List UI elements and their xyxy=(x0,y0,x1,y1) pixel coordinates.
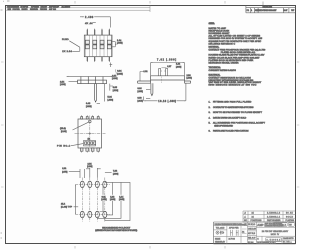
svg-text:(VIEWED FROM COMPONENT SIDE OF: (VIEWED FROM COMPONENT SIDE OF BOARD) xyxy=(95,229,137,232)
svg-text:1.91: 1.91 xyxy=(62,168,67,170)
doc no boxes xyxy=(273,223,287,227)
svg-text:1.14: 1.14 xyxy=(119,196,124,198)
svg-text:0.38: 0.38 xyxy=(138,98,143,100)
svg-text:2.54: 2.54 xyxy=(187,75,192,77)
bottom dim arrows xyxy=(144,100,186,101)
svg-text:[.032]: [.032] xyxy=(101,199,107,201)
svg-text:[.018]: [.018] xyxy=(86,106,92,108)
svg-text:[.120]: [.120] xyxy=(113,90,119,92)
svg-text:25.4: 25.4 xyxy=(61,204,66,206)
svg-text:SHEET 1 OF 2: SHEET 1 OF 2 xyxy=(264,243,276,245)
svg-text:[.040]: [.040] xyxy=(176,66,182,68)
bottom view square body xyxy=(78,119,102,148)
svg-text:7.62 [.300]: 7.62 [.300] xyxy=(157,59,176,61)
svg-text:PER DWG: PER DWG xyxy=(40,9,48,11)
svg-text:CHK D.W: CHK D.W xyxy=(248,229,256,231)
svg-text:9-97: 9-97 xyxy=(284,10,288,12)
top pin lead stubs xyxy=(82,115,99,116)
callout routing wires xyxy=(105,182,130,220)
svg-text:C-520314: C-520314 xyxy=(275,225,287,227)
third angle projection symbol xyxy=(216,231,224,234)
revisions table top-right xyxy=(246,2,296,13)
end view left wing xyxy=(138,80,151,83)
svg-text:2X 2.54: 2X 2.54 xyxy=(62,51,72,53)
svg-text:FITTINGS AND PADS FULL PLATED: FITTINGS AND PADS FULL PLATED xyxy=(213,100,252,103)
svg-text:6.: 6. xyxy=(209,131,211,133)
svg-text:REL 9-97: REL 9-97 xyxy=(248,237,256,239)
svg-text:SIZE OF STANDARD: SIZE OF STANDARD xyxy=(214,124,233,127)
svg-text:[1.00]: [1.00] xyxy=(61,131,67,133)
small circle feature xyxy=(89,120,92,123)
svg-text:[.015]: [.015] xyxy=(138,101,144,103)
end view pin xyxy=(151,83,153,95)
svg-text:1.02: 1.02 xyxy=(176,64,181,66)
bottom row pads xyxy=(80,211,107,218)
svg-text:P1 NO: P1 NO xyxy=(62,39,69,41)
svg-text:MOD IV: MOD IV xyxy=(271,234,280,236)
svg-text:1.: 1. xyxy=(209,101,211,103)
contact squares row 2 xyxy=(85,45,111,49)
leader to cluster xyxy=(71,144,84,146)
svg-text:DR K.LO: DR K.LO xyxy=(248,224,256,226)
svg-text:[.075]: [.075] xyxy=(62,171,68,173)
svg-text:2.: 2. xyxy=(209,107,211,109)
latch features xyxy=(159,69,168,76)
svg-text:HEADER AY: HEADER AY xyxy=(215,241,226,244)
svg-text:5000 MEGOHM MINIMUM AT 500 VDC: 5000 MEGOHM MINIMUM AT 500 VDC xyxy=(209,83,257,86)
svg-text:TOL ±0.13: TOL ±0.13 xyxy=(216,228,225,230)
right step dimension bracket xyxy=(112,42,116,47)
svg-text:ALL NUMBERED PIN POSITIONS SHA: ALL NUMBERED PIN POSITIONS SHALL ACCEPT xyxy=(213,122,266,125)
svg-text:RECOMMENDED PC LAYOUT: RECOMMENDED PC LAYOUT xyxy=(102,226,131,229)
top view pin column lines xyxy=(85,35,111,57)
bottom pin lead stubs xyxy=(82,151,99,152)
svg-text:3.05: 3.05 xyxy=(113,87,118,89)
svg-text:APVD PER: APVD PER xyxy=(229,227,239,230)
side view pin ticks in bar xyxy=(81,77,103,84)
center mark xyxy=(89,132,91,134)
svg-text:[.025]: [.025] xyxy=(117,74,123,76)
svg-text:108-25016 REVISION C: 108-25016 REVISION C xyxy=(209,43,236,45)
tolerance sub columns xyxy=(227,222,248,244)
svg-text:SC 4:1: SC 4:1 xyxy=(248,242,254,244)
svg-text:AMP 102: AMP 102 xyxy=(49,8,56,11)
svg-text:2.489: 2.489 xyxy=(85,17,94,19)
svg-text:AMP: AMP xyxy=(257,223,263,227)
top view body outline xyxy=(84,35,112,57)
svg-text:PIN NO.1: PIN NO.1 xyxy=(57,146,71,148)
svg-text:RIGHTS: RIGHTS xyxy=(22,9,29,11)
svg-text:DATUM DWGS ON ACCEPT SOLD: DATUM DWGS ON ACCEPT SOLD xyxy=(213,116,247,119)
svg-text:CAGE 00779: CAGE 00779 xyxy=(283,237,294,240)
end view body top plate xyxy=(151,76,185,80)
svg-text:HOUSING GLASS FILLED PBT THERM: HOUSING GLASS FILLED PBT THERMOPLASTIC U… xyxy=(209,54,265,57)
svg-text:0.81: 0.81 xyxy=(102,196,107,198)
svg-text:RESERVED: RESERVED xyxy=(30,9,39,11)
svg-text:[.045]: [.045] xyxy=(117,43,123,45)
svg-text:1: 1 xyxy=(291,242,292,244)
svg-text:7.62: 7.62 xyxy=(113,171,118,173)
top pins pointing up xyxy=(87,28,110,35)
svg-text:CURRENT RATING 3 AMPS: CURRENT RATING 3 AMPS xyxy=(209,69,237,72)
svg-text:4:1: 4:1 xyxy=(242,231,244,233)
svg-text:[.025]: [.025] xyxy=(138,91,144,93)
bottom cluster squares xyxy=(85,142,96,145)
svg-text:[.100]: [.100] xyxy=(112,78,118,80)
pc right top leader xyxy=(105,171,112,173)
gauge symbol right xyxy=(231,230,239,236)
svg-text:PARTS ARE TOOLED PER CUSTOM: PARTS ARE TOOLED PER CUSTOM xyxy=(213,130,249,133)
svg-text:5.84: 5.84 xyxy=(108,97,113,99)
svg-text:5.: 5. xyxy=(209,123,211,125)
svg-text:NAME: NAME xyxy=(215,238,221,241)
side view left leader xyxy=(69,81,78,83)
svg-text:GOLD: GOLD xyxy=(286,216,294,218)
svg-text:ALL RIGHTS: ALL RIGHTS xyxy=(62,5,71,8)
pc top-left dim leader xyxy=(69,169,85,178)
svg-text:FOR PUBL: FOR PUBL xyxy=(13,9,21,11)
svg-text:(25.4): (25.4) xyxy=(60,128,66,130)
svg-text:[.230]: [.230] xyxy=(108,99,114,101)
svg-text:APV R.S: APV R.S xyxy=(248,232,256,235)
svg-text:PLATED GOLD OVER NICKEL ALL: PLATED GOLD OVER NICKEL ALL xyxy=(221,51,256,54)
svg-text:[.100]: [.100] xyxy=(187,78,193,80)
drafting name rows xyxy=(248,222,257,244)
svg-text:C: C xyxy=(257,239,259,241)
bottom view centerlines xyxy=(75,116,106,153)
svg-text:CONTACTS TO MATE BEFORE APPLYI: CONTACTS TO MATE BEFORE APPLYING xyxy=(213,106,254,109)
side view right long dim xyxy=(103,84,105,102)
svg-text:0.64: 0.64 xyxy=(138,88,143,90)
svg-text:0.64: 0.64 xyxy=(117,71,122,73)
faint alignment marks above frame xyxy=(7,0,10,2)
svg-text:1.02: 1.02 xyxy=(110,196,115,198)
svg-text:1.27: 1.27 xyxy=(167,66,172,68)
bottom cluster box xyxy=(84,141,96,146)
svg-text:[.045]: [.045] xyxy=(119,199,125,201)
end view bottom dim xyxy=(144,83,186,101)
svg-text:DESIGNED FOR MOD IV SYSTEM TO: DESIGNED FOR MOD IV SYSTEM TO ACCEPT .02… xyxy=(209,37,263,40)
svg-text:1: 1 xyxy=(251,10,253,12)
top row pads xyxy=(80,181,107,188)
svg-text:2-520314: 2-520314 xyxy=(267,240,281,242)
pin1 leader xyxy=(69,41,80,47)
svg-text:P1: P1 xyxy=(247,10,250,12)
svg-text:4X .64: 4X .64 xyxy=(85,23,93,25)
svg-text:3.: 3. xyxy=(209,112,211,114)
row pitch dim arrows xyxy=(74,184,77,214)
svg-text:[.100]: [.100] xyxy=(60,84,66,86)
end view right wing xyxy=(185,80,191,83)
contact squares row 1 xyxy=(85,40,111,44)
svg-text:PART NUMBER: PART NUMBER xyxy=(267,219,281,222)
bottom row cells xyxy=(257,236,283,244)
svg-text:01 DR: 01 DR xyxy=(283,242,290,244)
title block outer lines xyxy=(214,222,296,244)
svg-text:1.91: 1.91 xyxy=(144,71,149,73)
svg-text:4.: 4. xyxy=(209,117,211,119)
side view dim arrows xyxy=(67,76,113,77)
lower-right pin dim callout xyxy=(110,63,113,68)
svg-text:24 PIN DIP HEADER ASSY: 24 PIN DIP HEADER ASSY xyxy=(262,230,289,233)
svg-text:RELE: RELE xyxy=(8,9,12,11)
pad column centerlines xyxy=(76,178,111,222)
svg-text:[1.00] TYP: [1.00] TYP xyxy=(61,207,73,209)
svg-text:[.100]: [.100] xyxy=(87,166,93,168)
svg-text:1.14: 1.14 xyxy=(117,40,122,42)
svg-text:2-520314-2: 2-520314-2 xyxy=(267,213,281,215)
leader to circle xyxy=(73,122,89,130)
bottom view top pins xyxy=(81,117,100,119)
svg-text:HOW TO BE PROCESSED TO FLOWS E: HOW TO BE PROCESSED TO FLOWS EXCEPT xyxy=(213,112,263,114)
svg-text:PLATING: PLATING xyxy=(286,219,295,222)
svg-text:REVISED PER EC 0990-0497: REVISED PER EC 0990-0497 xyxy=(255,10,277,12)
bottom pins pointing down xyxy=(87,57,110,63)
svg-text:SQUARE POST PIN CONTACTS ONLY: SQUARE POST PIN CONTACTS ONLY PER SPEC xyxy=(209,40,262,43)
svg-text:2-520314-1: 2-520314-1 xyxy=(267,216,281,218)
svg-text:MATES TO AMP: MATES TO AMP xyxy=(209,27,227,30)
svg-text:0.46: 0.46 xyxy=(86,103,91,105)
svg-text:RECEPTACLE CONN: RECEPTACLE CONN xyxy=(209,29,230,32)
side view top dim line xyxy=(67,75,113,77)
side view right small dim xyxy=(110,84,113,91)
copyright legal block top-left xyxy=(6,5,151,12)
svg-text:[.300]: [.300] xyxy=(113,174,119,176)
svg-text:24 POS: 24 POS xyxy=(229,239,236,241)
top view dim line xyxy=(80,17,110,28)
svg-text:10.16 [.400]: 10.16 [.400] xyxy=(158,101,176,103)
side view long pin xyxy=(95,84,97,102)
side view body bar xyxy=(78,80,107,84)
end view top dim line xyxy=(151,63,185,76)
svg-text:MICROINCH NICKEL UNDER: MICROINCH NICKEL UNDER xyxy=(209,62,239,64)
svg-text:ALL STYLES LISTED ON SHEET 2 O: ALL STYLES LISTED ON SHEET 2 OF SERIES xyxy=(209,35,261,38)
svg-text:30 AU: 30 AU xyxy=(286,212,294,215)
svg-text:2.54: 2.54 xyxy=(60,81,65,83)
svg-text:WP: WP xyxy=(291,10,295,12)
pc top dim line xyxy=(86,168,101,178)
svg-text:-2: -2 xyxy=(244,213,247,215)
svg-text:24: 24 xyxy=(252,213,255,215)
bottom view bottom pins xyxy=(80,148,99,151)
